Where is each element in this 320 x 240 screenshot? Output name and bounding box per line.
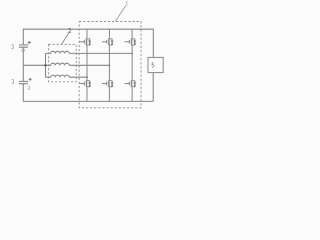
wire phase line 3 (L3 to leg1 midpoint) (69, 76, 87, 78)
wire right drop from top rail to load box (152, 29, 154, 58)
capacitor C1 bottom plate (19, 46, 28, 48)
label 2 (filter module) (68, 28, 71, 32)
wire phase line 1 (L1 to leg3 midpoint) (69, 52, 132, 54)
inductor L2 coil (46, 63, 70, 65)
label: C2 reference numeral 3 (left of C2) (12, 79, 14, 83)
wire left rail between C1 and C2 (22, 47, 24, 81)
wire mid tap from left rail to filter bus (23, 64, 45, 66)
capacitor C2 bottom plate (19, 83, 28, 85)
wire top DC rail (23, 28, 153, 30)
transistor Q6 (leg3 bottom) with freewheel diode (125, 80, 135, 101)
wire filter input bus (45, 53, 47, 77)
capacitor C2 polarity plus (29, 78, 32, 81)
label 1 (inverter module) (126, 2, 127, 6)
capacitor C2 top plate (19, 80, 28, 82)
transistor Q5 (leg3 top) with freewheel diode (125, 29, 135, 80)
junction node: phase1 / leg3 (131, 52, 133, 54)
load box (component 5) (148, 57, 163, 72)
label 5 inside load box (152, 63, 154, 67)
capacitor C1 polarity plus (28, 41, 31, 44)
dashed box: inverter module (79, 22, 141, 108)
transistor Q4 (leg2 bottom) with freewheel diode (102, 80, 112, 101)
dashed box: filter module (inductors) (49, 44, 77, 81)
capacitor C1 top plate (19, 44, 28, 46)
wire load box to bottom rail (152, 73, 154, 102)
transistor Q2 (leg1 bottom) with freewheel diode (80, 80, 90, 101)
junction node: phase2 / leg2 (108, 64, 110, 66)
inductor L1 coil (46, 51, 70, 53)
inductor L3 coil (46, 75, 70, 77)
leader line for label 1 (115, 6, 126, 22)
label: C1 small numerals 31 below plates (21, 49, 25, 51)
wire phase line 2 (L2 to leg2 midpoint) (69, 64, 109, 66)
label: C2 small numeral 2 below plates (28, 86, 30, 89)
junction node: bus / mid tap (44, 64, 47, 67)
wire left rail lower (C2 to bottom) (22, 84, 24, 102)
leader line for label 2 (62, 33, 69, 44)
junction node: phase3 / leg1 (86, 76, 88, 78)
wire left rail upper (to capacitor C1) (22, 29, 24, 45)
transistor Q3 (leg2 top) with freewheel diode (102, 29, 112, 80)
wire bottom rail (23, 100, 153, 102)
label: C1 reference numeral 3 (left of C1) (11, 45, 13, 49)
transistor Q1 (leg1 top) with freewheel diode (80, 29, 90, 80)
